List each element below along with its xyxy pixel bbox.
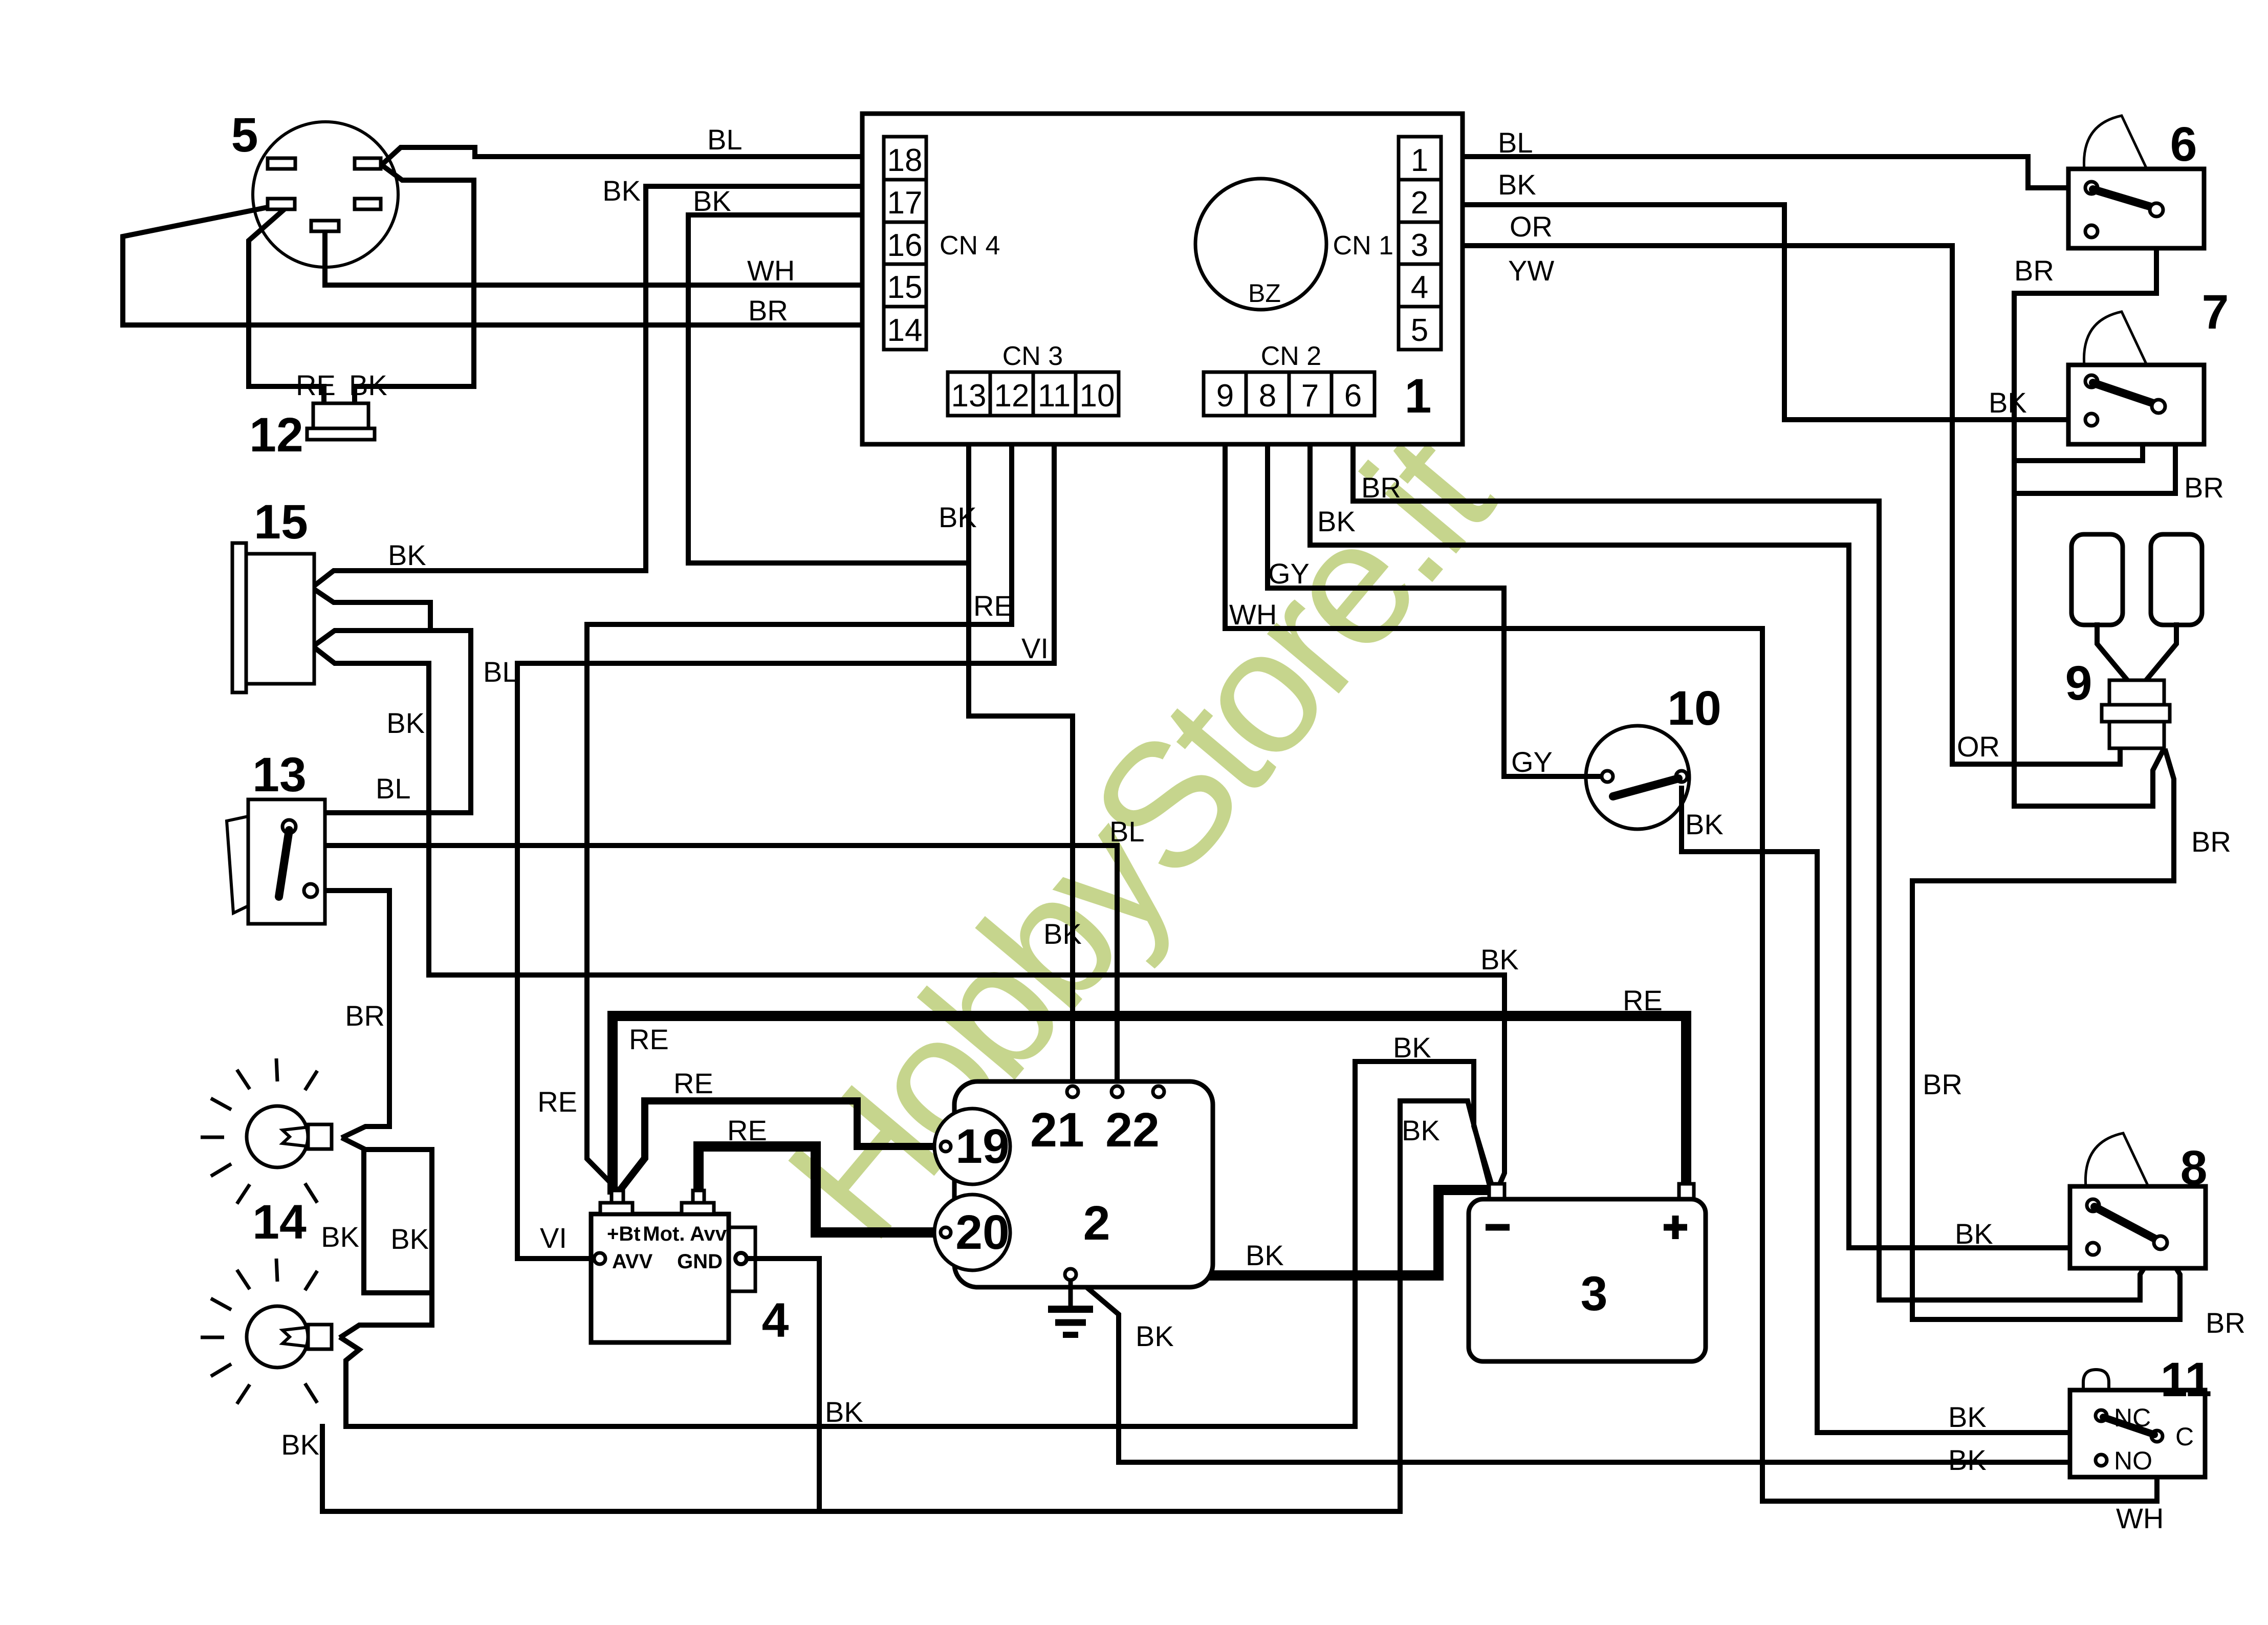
svg-text:BK: BK — [693, 185, 731, 217]
svg-text:BK: BK — [349, 369, 387, 401]
svg-text:BL: BL — [707, 123, 743, 156]
wire BR switch 7 caret right leg — [2014, 408, 2175, 493]
connector CN3 cells 13-10 — [948, 372, 1119, 416]
wire BL pin18 to ignition switch 5 — [383, 147, 884, 164]
wire BK pin17 to connector 15 upper — [313, 186, 880, 587]
wire BK bulb chain rung — [364, 1150, 432, 1293]
svg-text:BK: BK — [1402, 1114, 1440, 1146]
svg-text:BZ: BZ — [1248, 279, 1281, 308]
svg-text:BR: BR — [2191, 826, 2231, 858]
svg-text:9: 9 — [2065, 656, 2092, 710]
svg-text:6: 6 — [2170, 117, 2197, 171]
connector 12 — [313, 403, 368, 428]
svg-text:BR: BR — [2206, 1307, 2245, 1339]
control unit 1 main box — [862, 114, 1463, 444]
wire BR switch 13 to bulb 14a — [317, 891, 389, 1137]
wire OR pin3 to plug 9 — [1443, 246, 2120, 764]
svg-text:RE: RE — [727, 1114, 767, 1146]
svg-text:22: 22 — [1105, 1103, 1160, 1157]
svg-text:RE: RE — [1623, 984, 1663, 1016]
connector CN4 cells 18-14 — [884, 137, 926, 350]
svg-text:RE: RE — [537, 1086, 577, 1118]
svg-text:11: 11 — [1038, 378, 1071, 414]
wire BK pin2 to switch 7 — [1443, 205, 2087, 420]
svg-text:BK: BK — [939, 501, 977, 533]
svg-text:GY: GY — [1268, 557, 1310, 590]
wire BK pin7 to switch 8 — [1310, 418, 2088, 1248]
svg-text:NO: NO — [2114, 1446, 2152, 1475]
svg-text:13: 13 — [951, 378, 987, 414]
switch 10 — [1586, 681, 1721, 829]
connector CN1 cells 1-5 — [1399, 137, 1441, 350]
svg-text:7: 7 — [1301, 378, 1319, 414]
svg-text:AVV: AVV — [612, 1250, 653, 1273]
svg-text:18: 18 — [887, 143, 923, 178]
svg-text:11: 11 — [2161, 1353, 2212, 1407]
svg-text:CN 2: CN 2 — [1261, 341, 1321, 371]
svg-text:BK: BK — [1955, 1218, 1993, 1250]
wire RE thick battery plus to relay +Bt — [613, 1016, 1686, 1189]
svg-text:BK: BK — [386, 707, 425, 739]
wire RE thick relay Mot.Avv to engine 20 — [699, 1146, 936, 1232]
svg-text:BL: BL — [1109, 815, 1145, 848]
svg-text:BK: BK — [1246, 1239, 1284, 1271]
svg-text:VI: VI — [540, 1222, 567, 1254]
wire BK bottom run to battery minus — [346, 1061, 1493, 1426]
svg-text:21: 21 — [1030, 1103, 1084, 1157]
wire WH pin9 to switch 11 — [1225, 418, 1762, 1501]
svg-text:RE: RE — [673, 1067, 713, 1099]
svg-text:10: 10 — [1080, 378, 1115, 414]
wire BK ground bus up to battery minus — [1400, 1101, 1491, 1511]
svg-text:19: 19 — [955, 1119, 1010, 1174]
starter relay 4 — [591, 1190, 755, 1342]
engine 2 — [934, 1081, 1213, 1287]
svg-text:16: 16 — [887, 228, 923, 263]
wire switch 7 caret left leg — [2014, 408, 2158, 461]
wire BR ignition switch 5 to pin14 — [123, 207, 884, 325]
svg-text:RE: RE — [296, 369, 336, 401]
svg-text:3: 3 — [1411, 228, 1428, 263]
wire WH switch 11 C terminal — [1762, 1442, 2157, 1501]
micro switch 11 — [2070, 1353, 2212, 1477]
ignition switch 5 pins — [268, 158, 295, 169]
svg-text:CN 4: CN 4 — [940, 231, 1000, 261]
svg-text:BK: BK — [1136, 1320, 1174, 1352]
wire WH ignition switch 5 to pin15 — [325, 231, 884, 285]
svg-text:RE: RE — [629, 1023, 669, 1055]
wire RE pin12 to relay +Bt — [587, 418, 1012, 1188]
switch 13 — [227, 816, 248, 913]
wire connector 15 mid pair jog — [313, 589, 430, 631]
svg-text:2: 2 — [1411, 185, 1428, 221]
svg-text:NC: NC — [2114, 1403, 2151, 1432]
wire BK engine ground to switch 11 NO — [1079, 1281, 2097, 1462]
svg-text:1: 1 — [1405, 369, 1432, 423]
wire BR pin6 to switch 8 lever left leg — [1353, 418, 2160, 1300]
svg-text:5: 5 — [231, 108, 258, 162]
svg-text:5: 5 — [1411, 313, 1428, 348]
wire BK ground bus horizontal — [322, 1426, 1400, 1511]
svg-text:BK: BK — [1043, 918, 1082, 950]
svg-text:BK: BK — [1393, 1031, 1431, 1064]
svg-text:BK: BK — [1685, 808, 1724, 840]
wire BK bulb 14a to bulb 14b — [342, 1139, 432, 1336]
svg-text:8: 8 — [2180, 1141, 2208, 1195]
svg-text:BK: BK — [281, 1428, 319, 1461]
svg-text:7: 7 — [2202, 285, 2229, 339]
svg-text:VI: VI — [1021, 632, 1049, 664]
svg-text:YW: YW — [1508, 254, 1554, 287]
svg-text:BK: BK — [825, 1396, 863, 1428]
svg-text:BK: BK — [602, 175, 641, 207]
wire BK switch 10 to switch 11 NC — [1682, 788, 2097, 1457]
wire BR plug 9 to switch 8 lever — [1912, 751, 2180, 1319]
wire RE ignition switch 5 to connector 12 — [249, 211, 324, 404]
svg-text:OR: OR — [1957, 730, 2000, 763]
svg-text:12: 12 — [249, 408, 303, 462]
svg-text:17: 17 — [887, 185, 923, 221]
svg-text:9: 9 — [1216, 378, 1234, 414]
wire BK ignition switch 5 to connector 12 — [355, 166, 474, 404]
wire BK relay GND to ground bus — [747, 1259, 819, 1511]
svg-text:20: 20 — [955, 1205, 1010, 1260]
svg-text:3: 3 — [1581, 1267, 1608, 1321]
lamp 14a — [201, 1058, 332, 1204]
svg-text:BK: BK — [390, 1223, 429, 1255]
svg-text:13: 13 — [252, 748, 307, 802]
svg-text:4: 4 — [762, 1293, 789, 1348]
wire BK bulb 14b down to bottom run — [342, 1338, 359, 1426]
svg-text:4: 4 — [1411, 270, 1428, 305]
svg-text:GND: GND — [677, 1250, 723, 1273]
wire BK pin17 lower to engine pin 21 — [688, 201, 969, 563]
svg-text:BK: BK — [1948, 1444, 1987, 1476]
wire BL pin1 to switch 6 — [1443, 157, 2089, 188]
svg-text:2: 2 — [1083, 1196, 1110, 1250]
svg-text:OR: OR — [1510, 210, 1553, 243]
wire BK thick engine ground to battery minus — [1095, 1190, 1485, 1275]
svg-text:8: 8 — [1259, 378, 1276, 414]
svg-text:BK: BK — [321, 1221, 359, 1253]
lamp 14b — [201, 1259, 332, 1404]
svg-text:BK: BK — [1480, 943, 1519, 976]
wire RE relay +Bt to engine 19 — [622, 1101, 936, 1188]
wire VI pin11 to relay AVV — [517, 418, 1054, 1259]
wire BL connector 15 to switch 13 — [299, 631, 471, 827]
svg-text:1: 1 — [1411, 143, 1428, 178]
svg-text:CN 1: CN 1 — [1333, 231, 1393, 261]
svg-text:RE: RE — [973, 590, 1013, 622]
ground symbol — [1048, 1280, 1093, 1335]
wire GY pin8 to switch 10 — [1268, 418, 1603, 776]
wire BR switch 6 to plug 9 — [2014, 214, 2163, 806]
svg-text:6: 6 — [1344, 378, 1362, 414]
buzzer BZ circle — [1195, 179, 1326, 310]
svg-text:BK: BK — [388, 539, 426, 571]
svg-text:BL: BL — [1498, 126, 1533, 159]
svg-text:BR: BR — [2014, 254, 2054, 287]
svg-text:10: 10 — [1667, 681, 1721, 735]
svg-text:WH: WH — [2116, 1502, 2164, 1534]
svg-text:WH: WH — [747, 254, 795, 287]
svg-text:BR: BR — [748, 294, 788, 327]
ignition switch 5 circle — [253, 122, 398, 267]
connector CN2 cells 9-6 — [1204, 372, 1375, 416]
wire BK pin13 to engine pin 21 — [969, 418, 1073, 1088]
switch 7 — [2068, 285, 2229, 444]
svg-text:14: 14 — [252, 1195, 307, 1249]
svg-text:BK: BK — [1989, 386, 2027, 419]
svg-text:BR: BR — [345, 1000, 385, 1032]
svg-text:BR: BR — [1923, 1068, 1962, 1100]
svg-text:14: 14 — [887, 313, 923, 348]
battery 3 — [1469, 1184, 1706, 1361]
svg-text:GY: GY — [1511, 746, 1553, 778]
wire BL switch 13 to engine pin 22 — [299, 827, 1117, 1088]
switch 8 — [2070, 1133, 2207, 1268]
svg-text:BK: BK — [1498, 168, 1536, 201]
wire BK connector 15 lower to battery minus — [314, 647, 1504, 1195]
svg-text:BR: BR — [1361, 471, 1401, 504]
svg-text:Mot. Avv: Mot. Avv — [643, 1223, 727, 1245]
svg-text:BL: BL — [483, 656, 518, 688]
plug connector 9 — [2065, 534, 2202, 748]
svg-text:+Bt: +Bt — [607, 1223, 641, 1245]
switch 6 — [2068, 116, 2204, 248]
svg-text:BR: BR — [2184, 471, 2224, 504]
svg-text:12: 12 — [994, 378, 1030, 414]
svg-text:15: 15 — [254, 495, 308, 549]
svg-text:BK: BK — [1317, 505, 1356, 537]
svg-text:CN 3: CN 3 — [1002, 341, 1063, 371]
svg-text:BL: BL — [376, 772, 411, 805]
svg-text:C: C — [2175, 1422, 2194, 1451]
svg-text:WH: WH — [1229, 598, 1277, 631]
svg-text:15: 15 — [887, 270, 923, 305]
connector 15 — [232, 543, 246, 692]
svg-text:BK: BK — [1948, 1401, 1987, 1433]
